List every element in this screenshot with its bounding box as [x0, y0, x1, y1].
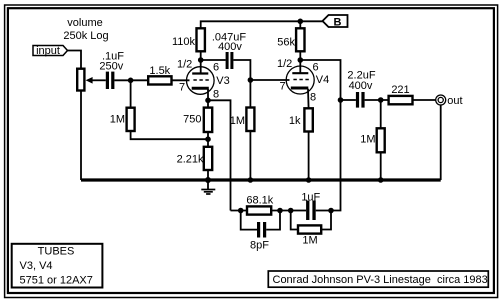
resistor 1.5k [148, 76, 171, 84]
capacitor .047uF 400v [226, 52, 234, 69]
wire grid node down to 1M [249, 80, 251, 108]
capacitor .1uF 250v [106, 72, 115, 89]
tube V4 cathode [291, 87, 309, 90]
node 2.21k ground junction [205, 177, 211, 183]
tube V4 grid (dashed) [293, 79, 309, 81]
svg-text:1M: 1M [110, 114, 125, 126]
tube V4 plate [292, 60, 308, 73]
svg-text:1k: 1k [289, 115, 301, 127]
svg-text:1/2: 1/2 [277, 58, 292, 70]
tube V3 grid (dashed) [193, 79, 209, 81]
wire 2.2uF to 221 node [365, 99, 389, 101]
wire feedback right to V4 plate line [331, 100, 341, 211]
resistor 1M (V4 grid leak) [246, 108, 254, 132]
wire input tag to pot top [68, 51, 82, 69]
TUBES info box [12, 244, 103, 288]
resistor 1M (V3 grid leak) [127, 108, 135, 131]
svg-text:1/2: 1/2 [177, 59, 192, 71]
wire cap to grid node [114, 79, 148, 81]
wire junction to 2.2uF [341, 99, 356, 101]
tube V3 plate [192, 60, 208, 74]
capacitor 2.2uF 400v [356, 92, 365, 108]
node 1M (V4 grid) ground junction [248, 177, 254, 183]
resistor 56k (V4 plate load) [296, 28, 304, 51]
svg-text:7: 7 [280, 81, 286, 93]
node feedback left junction [238, 208, 244, 214]
title box Conrad Johnson [268, 271, 488, 287]
node 68.1k right junction [277, 208, 283, 214]
svg-text:400v: 400v [218, 41, 242, 53]
svg-text:8: 8 [310, 91, 316, 103]
svg-text:5751 or 12AX7: 5751 or 12AX7 [20, 275, 93, 287]
node V3 plate junction [198, 57, 204, 63]
svg-text:TUBES: TUBES [38, 245, 75, 257]
wire 68.1k right to node [271, 210, 291, 212]
potentiometer wiper arrow [86, 77, 106, 84]
node 1M bleeder ground junction [378, 177, 384, 183]
wire .047uF to V4 grid node [233, 60, 250, 80]
node 1k ground junction [306, 177, 312, 183]
svg-text:1M: 1M [302, 235, 317, 247]
svg-text:56k: 56k [277, 37, 295, 49]
svg-text:6: 6 [313, 61, 319, 73]
svg-text:1uF: 1uF [301, 191, 320, 203]
svg-text:1M: 1M [360, 134, 375, 146]
svg-text:input: input [36, 45, 60, 57]
resistor 1M (parallel 1uF) [291, 211, 331, 234]
svg-text:750: 750 [183, 114, 201, 126]
wire pot bottom to ground bus [80, 91, 82, 181]
svg-text:2.21k: 2.21k [177, 154, 204, 166]
node input (tag) [33, 45, 68, 57]
svg-text:6: 6 [213, 61, 219, 73]
svg-text:Conrad Johnson PV-3 Linestage: Conrad Johnson PV-3 Linestage circa 1983 [273, 274, 488, 286]
wire out jack ground return [440, 105, 442, 180]
wire V4 plate to output cap [300, 60, 340, 100]
svg-text:221: 221 [391, 84, 409, 96]
resistor 1M (output bleeder) [377, 128, 385, 152]
svg-text:out: out [447, 95, 462, 107]
capacitor 8pF (parallel 68.1k) [241, 211, 280, 238]
capacitor 1uF (feedback) [291, 201, 331, 221]
wire ground bus [81, 178, 441, 181]
wire V3 cathode lead [207, 89, 209, 100]
svg-text:1M: 1M [230, 115, 245, 127]
svg-text:250v: 250v [99, 61, 123, 73]
svg-text:1.5k: 1.5k [149, 65, 170, 77]
wire V3 plate to .047uF [201, 59, 226, 61]
node V3 cathode junction [205, 98, 211, 104]
wire grid node down to 1M [130, 80, 132, 107]
wire 1k to ground bus [308, 132, 310, 181]
svg-text:V4: V4 [316, 74, 329, 86]
node V3 grid junction [128, 78, 134, 84]
node V4 plate junction [298, 57, 304, 63]
node B (tag) [323, 15, 348, 28]
resistor 2.21k [204, 147, 212, 170]
node 221/1M junction [378, 97, 384, 103]
svg-text:250k Log: 250k Log [63, 30, 108, 42]
wire to V4 grid [250, 79, 289, 81]
resistor 1k (V4 cathode) [304, 108, 312, 131]
wire B+ top rail [201, 21, 323, 28]
wire 1M to ground bus [249, 131, 251, 180]
wire feedback network horizontal [231, 210, 248, 212]
wire junction down to 1M bleeder [380, 100, 382, 128]
node 1uF right junction [328, 208, 334, 214]
svg-text:B: B [334, 16, 342, 28]
node 56k top junction [298, 19, 304, 25]
svg-text:68.1k: 68.1k [246, 195, 273, 207]
wire 750 to 2.21k junction [207, 132, 209, 147]
svg-text:V3: V3 [216, 75, 229, 87]
wire 1M bottom to feedback node [131, 131, 208, 139]
svg-text:8: 8 [213, 89, 219, 101]
wire 56k top to rail [299, 21, 301, 28]
wire V3 cathode to feedback line [208, 100, 231, 210]
node out (jack) [436, 95, 463, 107]
wire 56k to V4 plate node [299, 51, 301, 60]
tube V3 envelope [187, 67, 215, 95]
resistor 110k (V3 plate load) [197, 28, 205, 51]
wire 1.5k to V3 grid [172, 79, 190, 81]
resistor 221 [389, 96, 413, 104]
node 750/2.21k junction [205, 136, 211, 142]
svg-text:400v: 400v [349, 80, 373, 92]
wire cathode to 750 [207, 100, 209, 107]
svg-text:110k: 110k [172, 36, 196, 48]
svg-text:volume: volume [67, 17, 102, 29]
wire 2.21k to ground bus [207, 170, 209, 180]
tube V3 cathode [192, 87, 209, 90]
svg-text:8pF: 8pF [250, 240, 269, 252]
node 1uF left junction [288, 208, 294, 214]
wire 221 to out jack [413, 99, 436, 101]
potentiometer 250k body [77, 69, 84, 91]
tube V4 envelope [286, 66, 314, 94]
wire 1M bleeder to ground bus [380, 152, 382, 180]
ground symbol [201, 180, 215, 194]
wire 110k to V3 plate node [200, 51, 202, 60]
wire V4 cathode lead to 1k [307, 89, 310, 109]
svg-text:V3, V4: V3, V4 [20, 260, 53, 272]
svg-text:7: 7 [179, 82, 185, 94]
node V4 grid junction [248, 77, 254, 83]
resistor 750 (V3 cathode) [204, 108, 212, 132]
resistor 68.1k (feedback) [247, 206, 271, 214]
node 2.2uF left junction [338, 97, 344, 103]
